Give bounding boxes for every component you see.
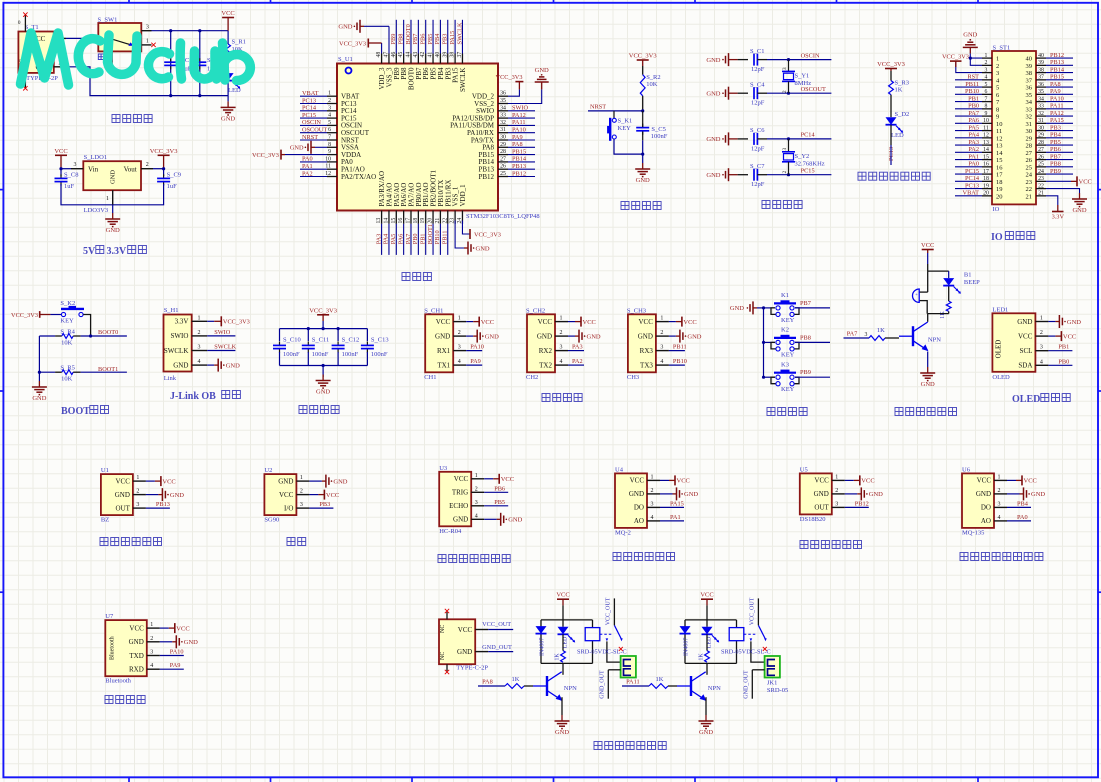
svg-text:VCC: VCC — [1079, 179, 1092, 186]
svg-text:GND: GND — [555, 729, 569, 736]
svg-text:4: 4 — [328, 113, 331, 119]
svg-text:S_C5: S_C5 — [651, 126, 665, 133]
svg-text:10K: 10K — [61, 375, 73, 382]
svg-text:GND: GND — [32, 395, 46, 402]
svg-text:PA1: PA1 — [670, 514, 681, 521]
svg-text:3: 3 — [74, 162, 77, 168]
svg-text:27: 27 — [500, 156, 506, 162]
svg-text:2: 2 — [300, 489, 303, 495]
svg-text:1K: 1K — [877, 327, 885, 334]
svg-text:JK1: JK1 — [767, 679, 777, 686]
svg-text:PA12: PA12 — [1050, 110, 1064, 117]
svg-text:1: 1 — [1040, 316, 1043, 322]
svg-text:TX3: TX3 — [640, 361, 653, 369]
svg-text:GND: GND — [1031, 491, 1045, 498]
svg-text:LDO3V3: LDO3V3 — [84, 207, 109, 214]
svg-text:K1: K1 — [781, 292, 789, 299]
svg-text:10K: 10K — [61, 340, 73, 347]
svg-text:2: 2 — [782, 171, 788, 174]
svg-text:25: 25 — [1038, 162, 1044, 168]
svg-text:32: 32 — [1038, 111, 1044, 117]
svg-text:GND: GND — [435, 332, 450, 340]
svg-text:18: 18 — [983, 176, 989, 182]
svg-text:18: 18 — [413, 218, 419, 224]
svg-text:VCC: VCC — [458, 626, 473, 634]
svg-text:PA0: PA0 — [1017, 514, 1028, 521]
svg-text:30: 30 — [1026, 128, 1033, 135]
svg-text:CH1: CH1 — [424, 374, 436, 381]
svg-text:2: 2 — [458, 330, 461, 336]
svg-text:VCC: VCC — [1024, 478, 1037, 485]
svg-text:GND: GND — [537, 332, 552, 340]
svg-text:PB5: PB5 — [494, 499, 505, 506]
svg-text:PB12: PB12 — [855, 500, 869, 507]
svg-text:OLED: OLED — [1012, 394, 1040, 405]
svg-text:J-Link OB: J-Link OB — [170, 391, 216, 402]
svg-text:PB15: PB15 — [512, 148, 526, 155]
svg-text:PA6: PA6 — [968, 117, 979, 124]
svg-text:3: 3 — [996, 70, 999, 77]
svg-text:PB11: PB11 — [965, 81, 979, 88]
svg-text:3: 3 — [985, 67, 988, 73]
svg-text:15: 15 — [996, 157, 1003, 164]
svg-text:PA9: PA9 — [1050, 88, 1061, 95]
svg-text:2: 2 — [835, 488, 838, 494]
svg-text:11: 11 — [996, 128, 1002, 135]
svg-text:19: 19 — [420, 218, 426, 224]
svg-text:GND: GND — [485, 333, 499, 340]
svg-text:S_C13: S_C13 — [371, 337, 389, 344]
svg-text:SCL: SCL — [1020, 347, 1033, 355]
svg-text:IN4007: IN4007 — [684, 638, 690, 656]
svg-text:PA15: PA15 — [449, 31, 456, 45]
svg-text:12pF: 12pF — [751, 100, 765, 107]
svg-text:1: 1 — [835, 474, 838, 480]
svg-text:S_LDO1: S_LDO1 — [84, 154, 107, 161]
svg-text:GND: GND — [687, 333, 701, 340]
svg-text:4: 4 — [985, 75, 988, 81]
svg-text:PA12: PA12 — [512, 112, 526, 119]
svg-text:16: 16 — [996, 164, 1003, 171]
svg-text:12pF: 12pF — [751, 66, 765, 73]
svg-text:2: 2 — [560, 330, 563, 336]
svg-text:SRD-05VDC-SL-C: SRD-05VDC-SL-C — [721, 648, 771, 655]
svg-text:GND: GND — [636, 177, 650, 184]
svg-text:PB7: PB7 — [412, 34, 419, 45]
svg-text:3: 3 — [328, 105, 331, 111]
svg-text:SWIO: SWIO — [171, 332, 189, 340]
svg-text:9: 9 — [996, 114, 999, 121]
svg-text:VCC_OUT: VCC_OUT — [606, 597, 612, 625]
svg-text:39: 39 — [1038, 60, 1044, 66]
svg-text:VCC_OUT: VCC_OUT — [482, 621, 511, 628]
svg-text:PA7: PA7 — [405, 234, 412, 245]
svg-text:3: 3 — [660, 345, 663, 351]
svg-text:PA7: PA7 — [847, 330, 858, 337]
svg-text:3: 3 — [782, 67, 788, 70]
svg-text:PA6: PA6 — [397, 234, 404, 245]
svg-text:1K: 1K — [555, 653, 561, 661]
svg-text:37: 37 — [1038, 75, 1044, 81]
svg-text:VCC: VCC — [326, 492, 339, 499]
svg-text:PA3: PA3 — [572, 344, 583, 351]
svg-text:VCC_3V3: VCC_3V3 — [223, 319, 250, 326]
svg-text:K3: K3 — [781, 361, 789, 368]
svg-text:OSCIN: OSCIN — [302, 119, 321, 126]
svg-text:40: 40 — [1038, 53, 1044, 59]
svg-text:PA1: PA1 — [968, 153, 979, 160]
svg-text:GND: GND — [129, 638, 144, 646]
svg-text:10K: 10K — [646, 81, 658, 88]
svg-text:21: 21 — [1026, 193, 1033, 200]
svg-text:PA7: PA7 — [968, 110, 979, 117]
svg-text:DO: DO — [634, 504, 644, 512]
svg-text:MQ-135: MQ-135 — [962, 529, 984, 536]
svg-text:VCC: VCC — [1063, 333, 1076, 340]
svg-text:SG90: SG90 — [264, 517, 279, 524]
svg-text:GND: GND — [706, 91, 720, 98]
svg-text:NPN: NPN — [928, 336, 941, 343]
svg-text:SRD-05: SRD-05 — [767, 687, 788, 694]
svg-text:31: 31 — [1026, 121, 1033, 128]
svg-text:3: 3 — [998, 501, 1001, 507]
svg-text:VBAT: VBAT — [963, 190, 980, 197]
svg-text:S_C12: S_C12 — [342, 337, 360, 344]
svg-text:AO: AO — [634, 517, 644, 525]
svg-text:GND: GND — [110, 170, 117, 184]
svg-text:PA15: PA15 — [1050, 117, 1064, 124]
svg-text:PB0: PB0 — [968, 103, 979, 110]
svg-text:VCC: VCC — [630, 477, 645, 485]
svg-text:5: 5 — [996, 85, 999, 92]
svg-text:1: 1 — [651, 474, 654, 480]
svg-text:S_C4: S_C4 — [750, 82, 765, 89]
svg-text:21: 21 — [1038, 191, 1044, 197]
svg-text:1: 1 — [150, 622, 153, 628]
svg-text:19: 19 — [983, 183, 989, 189]
svg-text:PB8: PB8 — [397, 34, 404, 45]
svg-text:7: 7 — [985, 96, 988, 102]
svg-text:20: 20 — [428, 218, 434, 224]
svg-text:GND: GND — [333, 478, 347, 485]
svg-text:9: 9 — [328, 149, 331, 155]
svg-text:5: 5 — [328, 120, 331, 126]
svg-text:1: 1 — [300, 475, 303, 481]
svg-text:GND: GND — [184, 639, 198, 646]
svg-text:BEEP: BEEP — [964, 279, 980, 286]
svg-text:GND: GND — [1072, 207, 1086, 214]
svg-text:PB3: PB3 — [319, 501, 330, 508]
svg-text:VCC_3V3: VCC_3V3 — [252, 152, 279, 159]
svg-text:28: 28 — [500, 149, 506, 155]
svg-text:VCC: VCC — [700, 592, 713, 599]
svg-text:39: 39 — [1026, 63, 1033, 70]
svg-text:5V: 5V — [83, 246, 96, 257]
svg-text:100nF: 100nF — [371, 351, 388, 358]
svg-text:2: 2 — [136, 489, 139, 495]
svg-text:RX3: RX3 — [640, 347, 654, 355]
svg-text:PC15: PC15 — [302, 112, 316, 119]
svg-text:CH3: CH3 — [627, 374, 639, 381]
svg-text:35: 35 — [1026, 92, 1033, 99]
svg-text:13: 13 — [996, 143, 1003, 150]
svg-text:VCC_3V3: VCC_3V3 — [11, 312, 38, 319]
svg-text:PB14: PB14 — [512, 156, 527, 163]
svg-text:KEY: KEY — [618, 125, 632, 132]
svg-text:VCC_3V3: VCC_3V3 — [474, 232, 501, 239]
svg-text:14: 14 — [383, 218, 389, 224]
svg-text:4: 4 — [458, 359, 461, 365]
svg-text:NRST: NRST — [302, 134, 318, 141]
svg-text:100nF: 100nF — [283, 351, 300, 358]
svg-text:PB10: PB10 — [673, 358, 687, 365]
svg-text:26: 26 — [1026, 157, 1033, 164]
svg-text:SWIO: SWIO — [512, 105, 529, 112]
svg-text:GND: GND — [706, 57, 720, 64]
svg-text:VCC_3V3: VCC_3V3 — [496, 74, 523, 81]
svg-text:13: 13 — [983, 140, 989, 146]
svg-text:CH2: CH2 — [526, 374, 538, 381]
svg-text:U4: U4 — [615, 466, 624, 473]
svg-text:PA9: PA9 — [470, 358, 481, 365]
svg-text:K2: K2 — [781, 327, 789, 334]
svg-text:14: 14 — [983, 147, 989, 153]
svg-text:PB5: PB5 — [427, 34, 434, 45]
svg-text:100nF: 100nF — [342, 351, 359, 358]
svg-text:S_D2: S_D2 — [895, 111, 910, 118]
svg-text:GND: GND — [173, 361, 188, 369]
svg-text:S_H1: S_H1 — [164, 307, 179, 314]
svg-text:S_C1: S_C1 — [750, 48, 764, 55]
svg-text:19: 19 — [996, 186, 1003, 193]
svg-text:PA8: PA8 — [512, 141, 523, 148]
svg-text:ECHO: ECHO — [449, 502, 468, 510]
svg-text:IN4007: IN4007 — [540, 638, 546, 656]
svg-text:PA4: PA4 — [968, 132, 979, 139]
svg-text:PB14: PB14 — [1050, 66, 1065, 73]
svg-text:3: 3 — [198, 345, 201, 351]
svg-text:31: 31 — [500, 127, 506, 133]
svg-text:GND: GND — [316, 389, 330, 396]
svg-text:SWCLK: SWCLK — [459, 68, 467, 93]
svg-text:PB6: PB6 — [420, 34, 427, 45]
svg-text:17: 17 — [983, 169, 989, 175]
svg-text:PB1: PB1 — [968, 95, 979, 102]
svg-text:31: 31 — [1038, 118, 1044, 124]
svg-text:GND: GND — [869, 491, 883, 498]
svg-text:18: 18 — [996, 179, 1003, 186]
svg-text:PB11: PB11 — [442, 231, 449, 245]
svg-text:VCC: VCC — [583, 319, 596, 326]
svg-text:S_C8: S_C8 — [64, 172, 78, 179]
svg-text:1: 1 — [998, 474, 1001, 480]
svg-text:32: 32 — [1026, 114, 1033, 121]
svg-text:PC15: PC15 — [801, 168, 815, 175]
svg-text:PB11: PB11 — [673, 344, 687, 351]
svg-text:GND: GND — [535, 67, 549, 74]
svg-text:U2: U2 — [264, 467, 272, 474]
svg-text:20: 20 — [996, 193, 1003, 200]
svg-text:PA2/TX/AO: PA2/TX/AO — [341, 173, 376, 181]
svg-text:22: 22 — [1038, 183, 1044, 189]
svg-text:3: 3 — [835, 501, 838, 507]
svg-text:PC14: PC14 — [965, 175, 980, 182]
svg-text:34: 34 — [1038, 96, 1044, 102]
svg-text:PB9: PB9 — [390, 34, 397, 45]
svg-text:GND: GND — [638, 332, 653, 340]
svg-text:12pF: 12pF — [751, 181, 765, 188]
svg-text:2: 2 — [660, 330, 663, 336]
svg-text:SWCLK: SWCLK — [214, 344, 236, 351]
svg-text:100nF: 100nF — [312, 351, 329, 358]
svg-text:VCC: VCC — [814, 477, 829, 485]
svg-text:PB8: PB8 — [800, 334, 811, 341]
svg-text:PA9: PA9 — [512, 134, 523, 141]
svg-text:4: 4 — [1040, 359, 1043, 365]
svg-text:4: 4 — [998, 515, 1001, 521]
svg-text:38: 38 — [1026, 70, 1033, 77]
svg-text:LED1: LED1 — [992, 307, 1008, 314]
svg-text:Vin: Vin — [88, 165, 99, 173]
svg-text:1K: 1K — [699, 653, 705, 661]
svg-text:VCC: VCC — [436, 318, 451, 326]
svg-text:10: 10 — [983, 118, 989, 124]
svg-text:VCC: VCC — [481, 319, 494, 326]
svg-text:MQ-2: MQ-2 — [615, 529, 631, 536]
svg-text:OSCOUT: OSCOUT — [801, 86, 826, 93]
svg-text:LED: LED — [891, 132, 904, 139]
svg-text:VCC_3V3: VCC_3V3 — [942, 53, 969, 60]
svg-text:8: 8 — [996, 106, 999, 113]
svg-text:U3: U3 — [439, 465, 447, 472]
svg-text:GND_OUT: GND_OUT — [599, 670, 605, 699]
svg-text:PA2: PA2 — [968, 146, 979, 153]
svg-text:PB7: PB7 — [800, 300, 811, 307]
svg-text:PB0: PB0 — [412, 233, 419, 244]
svg-text:3: 3 — [560, 345, 563, 351]
svg-text:S_C7: S_C7 — [750, 163, 765, 170]
svg-text:VCC: VCC — [279, 491, 294, 499]
svg-text:23: 23 — [1026, 179, 1033, 186]
svg-text:U6: U6 — [962, 466, 971, 473]
svg-text:GND: GND — [221, 115, 235, 122]
svg-text:3: 3 — [475, 500, 478, 506]
svg-text:6: 6 — [328, 127, 331, 133]
svg-text:PB3: PB3 — [442, 34, 449, 45]
svg-text:29: 29 — [1026, 135, 1033, 142]
svg-text:22: 22 — [1026, 186, 1033, 193]
svg-text:OUT: OUT — [814, 504, 829, 512]
svg-text:26: 26 — [500, 164, 506, 170]
svg-text:PB12: PB12 — [1050, 52, 1064, 59]
svg-text:27: 27 — [1038, 147, 1044, 153]
svg-text:PA8: PA8 — [1050, 81, 1061, 88]
svg-text:4: 4 — [198, 359, 201, 365]
svg-text:PA3: PA3 — [968, 139, 979, 146]
svg-text:STM32F103C8T6_LQFP48: STM32F103C8T6_LQFP48 — [466, 213, 540, 220]
svg-text:U1: U1 — [101, 467, 109, 474]
svg-text:3: 3 — [146, 25, 149, 31]
svg-text:GND: GND — [1067, 319, 1081, 326]
svg-text:1: 1 — [985, 53, 988, 59]
svg-text:RX1: RX1 — [437, 347, 451, 355]
svg-text:NC: NC — [440, 625, 446, 633]
svg-text:DO: DO — [981, 504, 991, 512]
svg-text:SRD-05VDC-SL-C: SRD-05VDC-SL-C — [577, 648, 627, 655]
svg-text:GND: GND — [278, 477, 293, 485]
svg-text:3: 3 — [300, 502, 303, 508]
svg-text:PB10: PB10 — [434, 230, 441, 244]
svg-text:1K: 1K — [656, 676, 664, 683]
svg-text:GND: GND — [684, 491, 698, 498]
svg-text:IO: IO — [993, 206, 1000, 213]
svg-text:10: 10 — [996, 121, 1003, 128]
svg-text:PA1: PA1 — [302, 163, 313, 170]
svg-text:28: 28 — [1038, 140, 1044, 146]
svg-text:1: 1 — [106, 196, 109, 202]
svg-text:1K: 1K — [939, 311, 946, 319]
svg-text:PB5: PB5 — [1050, 139, 1061, 146]
svg-text:BOOT1: BOOT1 — [427, 224, 434, 244]
svg-text:AO: AO — [981, 517, 991, 525]
svg-text:BOOT0: BOOT0 — [98, 329, 118, 336]
svg-text:29: 29 — [500, 142, 506, 148]
svg-text:36: 36 — [500, 91, 506, 97]
svg-text:22: 22 — [442, 218, 448, 224]
svg-text:PC14: PC14 — [801, 132, 816, 139]
svg-text:2: 2 — [985, 60, 988, 66]
svg-text:PB12: PB12 — [512, 170, 526, 177]
svg-text:VCC_3V3: VCC_3V3 — [877, 61, 905, 68]
svg-text:28: 28 — [1026, 143, 1033, 150]
svg-text:PB4: PB4 — [1050, 132, 1062, 139]
svg-text:S_U1: S_U1 — [338, 56, 353, 63]
svg-text:KEY: KEY — [781, 351, 795, 358]
svg-text:VCC: VCC — [538, 318, 553, 326]
svg-text:2: 2 — [198, 330, 201, 336]
svg-text:1uF: 1uF — [64, 183, 75, 190]
svg-text:VBAT: VBAT — [302, 90, 319, 97]
svg-text:35: 35 — [500, 98, 506, 104]
svg-text:2: 2 — [782, 90, 788, 93]
svg-text:11: 11 — [983, 125, 989, 131]
svg-text:GND: GND — [508, 517, 522, 524]
svg-text:8MHz: 8MHz — [795, 80, 812, 87]
svg-text:VCC: VCC — [54, 148, 67, 155]
svg-text:PB1: PB1 — [420, 233, 427, 244]
svg-text:S_CH1: S_CH1 — [424, 308, 443, 315]
svg-text:OLED: OLED — [992, 374, 1010, 381]
svg-text:100nF: 100nF — [651, 133, 668, 140]
svg-text:3.3V: 3.3V — [1052, 214, 1065, 221]
svg-text:14: 14 — [996, 150, 1003, 157]
svg-text:29: 29 — [1038, 133, 1044, 139]
svg-text:VCC: VCC — [556, 592, 569, 599]
svg-text:PB15: PB15 — [1050, 74, 1064, 81]
svg-text:PA0: PA0 — [968, 161, 979, 168]
svg-text:24: 24 — [1026, 172, 1033, 179]
svg-text:PA11: PA11 — [1050, 103, 1064, 110]
svg-text:PA15: PA15 — [670, 500, 684, 507]
svg-text:12: 12 — [983, 133, 989, 139]
svg-text:VCC_3V3: VCC_3V3 — [309, 307, 337, 314]
svg-text:Bluetooth: Bluetooth — [105, 678, 131, 685]
svg-text:1: 1 — [458, 316, 461, 322]
svg-text:32.768KHz: 32.768KHz — [795, 160, 825, 167]
svg-text:GND: GND — [730, 305, 744, 312]
svg-text:PC14: PC14 — [302, 105, 317, 112]
svg-text:15: 15 — [391, 218, 397, 224]
